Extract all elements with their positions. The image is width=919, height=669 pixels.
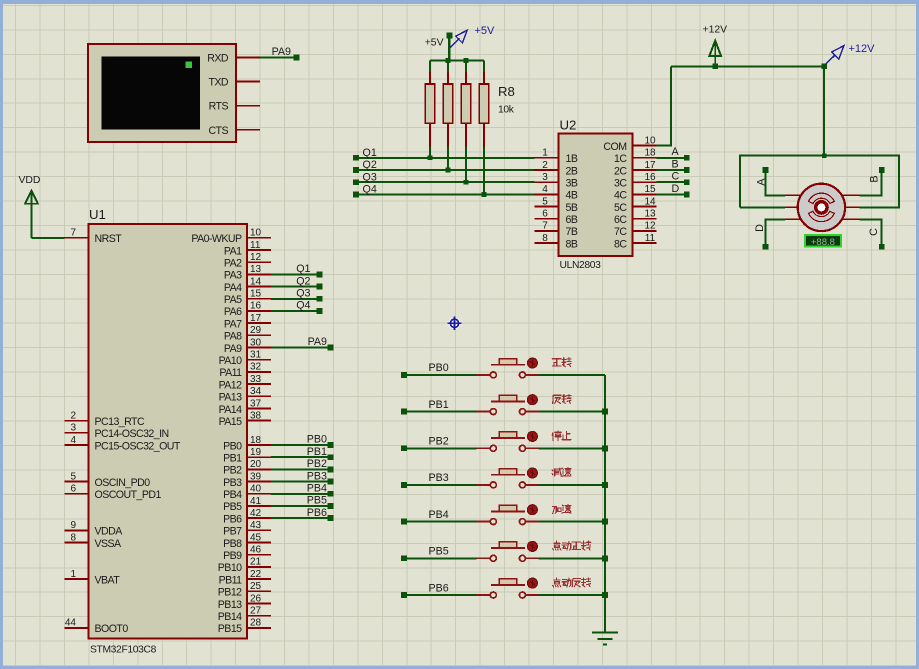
svg-text:PA11: PA11 [219,367,242,379]
svg-text:PC14-OSC32_IN: PC14-OSC32_IN [95,428,169,440]
svg-text:45: 45 [250,532,262,543]
wire net PA9 from U1 [271,345,333,351]
button 6 indicator dot [528,542,538,552]
wire button 3 to ground bus [538,447,605,449]
svg-text:4: 4 [542,184,548,195]
button 1 indicator dot [528,358,538,368]
terminal pin stubs [236,58,260,130]
svg-text:PA7: PA7 [224,318,242,330]
svg-text:+12V: +12V [703,25,728,36]
svg-text:41: 41 [250,496,262,507]
wire button 7 to ground bus [538,594,605,596]
svg-text:C: C [868,228,880,236]
svg-text:6B: 6B [566,214,578,226]
svg-text:OSCIN_PD0: OSCIN_PD0 [95,477,151,489]
svg-text:Q4: Q4 [296,300,310,312]
svg-text:D: D [754,224,766,232]
svg-text:4B: 4B [566,190,578,202]
svg-text:OSCOUT_PD1: OSCOUT_PD1 [95,489,162,501]
svg-text:14: 14 [250,276,262,287]
svg-text:PB3: PB3 [223,477,242,489]
U1 right pins PB0-PB15 [218,435,271,635]
svg-text:PA3: PA3 [224,270,242,282]
svg-text:22: 22 [250,569,262,580]
svg-text:PB4: PB4 [307,483,327,495]
svg-text:PB0: PB0 [307,434,327,446]
button 7 chinese label [553,578,591,587]
wire net Q1 bus to U2 [353,155,535,161]
wire net PB0 to button 1 [401,372,477,378]
wire +12V rail [671,64,827,156]
svg-text:18: 18 [644,148,656,159]
svg-text:PB5: PB5 [223,501,242,513]
push button SW2 [477,395,539,414]
push button SW5 [477,505,539,524]
wire +5V rail (resistor tops) [430,58,484,63]
svg-text:5C: 5C [614,202,627,214]
svg-text:PB2: PB2 [307,458,327,470]
svg-text:STM32F103C8: STM32F103C8 [90,645,157,656]
wire net Q4 from U1 PA6 [271,308,322,314]
svg-text:7C: 7C [614,226,627,238]
svg-text:B: B [672,158,679,170]
svg-text:PB0: PB0 [223,440,242,452]
svg-text:3: 3 [70,423,76,434]
svg-text:PB15: PB15 [218,623,242,635]
power +12V terminal [703,25,728,67]
svg-text:PA14: PA14 [219,404,243,416]
svg-text:7B: 7B [566,226,578,238]
svg-text:PB3: PB3 [429,472,449,484]
svg-text:20: 20 [250,459,262,470]
wire button 1 to ground bus [538,374,605,376]
svg-text:3B: 3B [566,178,578,190]
svg-text:PB2: PB2 [223,465,242,477]
wire net Q3 bus to U2 [353,179,535,185]
svg-text:PB7: PB7 [223,526,242,538]
wire net PB2 to button 3 [401,445,477,451]
virtual terminal (top-left) [88,44,236,142]
svg-text:Q2: Q2 [363,159,377,171]
svg-text:40: 40 [250,484,262,495]
button 1 chinese label [552,358,571,367]
wire net PB4 to button 5 [401,519,477,525]
U2 right pins 1C-8C [614,148,657,251]
svg-text:27: 27 [250,606,262,617]
+12V blue label arrow [825,46,844,65]
svg-text:+5V: +5V [475,25,496,37]
origin marker [448,317,462,331]
svg-text:28: 28 [250,618,262,629]
svg-text:7: 7 [70,228,76,239]
svg-text:PA0-WKUP: PA0-WKUP [191,233,242,245]
svg-text:PC15-OSC32_OUT: PC15-OSC32_OUT [95,440,181,452]
button 6 chinese label [553,541,591,550]
svg-text:8C: 8C [614,238,627,250]
svg-text:2: 2 [70,411,76,422]
wire net C from U2 3C [657,179,690,185]
button 4 indicator dot [528,468,538,478]
svg-text:PA2: PA2 [224,258,242,270]
svg-text:31: 31 [250,350,262,361]
svg-text:BOOT0: BOOT0 [95,623,129,635]
svg-text:3C: 3C [614,178,627,190]
+5V blue label arrow [450,30,467,47]
svg-text:PA5: PA5 [224,294,242,306]
wire net A from U2 1C [657,155,690,161]
svg-text:16: 16 [644,172,656,183]
wire net D from U2 4C [657,192,690,198]
svg-text:46: 46 [250,545,262,556]
svg-text:10k: 10k [498,105,515,116]
wire net Q2 bus to U2 [353,167,535,173]
wire button 6 to ground bus [538,557,605,559]
button 3 indicator dot [528,432,538,442]
push button SW4 [477,469,539,488]
button 7 indicator dot [528,578,538,588]
button 2 indicator dot [528,395,538,405]
svg-text:44: 44 [65,618,77,629]
svg-text:PB12: PB12 [218,587,242,599]
button 5 indicator dot [528,505,538,515]
svg-text:6: 6 [70,484,76,495]
svg-text:PB4: PB4 [223,489,242,501]
svg-text:1: 1 [70,569,76,580]
svg-text:PB9: PB9 [223,550,242,562]
svg-text:PC13_RTC: PC13_RTC [95,416,145,428]
wire ground bus vertical [602,375,608,632]
wire net PB6 to button 7 [401,592,477,598]
svg-text:PB14: PB14 [218,611,242,623]
svg-text:PB13: PB13 [218,599,242,611]
svg-text:PB5: PB5 [307,495,327,507]
svg-text:C: C [672,171,680,183]
power VDD [19,175,41,238]
wire net PB1 to button 2 [401,409,477,415]
svg-text:1: 1 [542,148,548,159]
svg-text:42: 42 [250,508,262,519]
svg-text:RTS: RTS [209,101,229,113]
svg-text:Q1: Q1 [296,263,310,275]
svg-text:PB2: PB2 [429,436,449,448]
svg-text:VDD: VDD [19,175,41,186]
svg-text:Q1: Q1 [363,147,377,159]
push button SW6 [477,542,539,561]
button 3 chinese label [552,431,571,440]
svg-text:6C: 6C [614,214,627,226]
U1 right pins PA0-PA15 [191,228,271,428]
resistor network R8 (4 elements) [425,61,488,148]
wire net PB6 from U1 [271,515,333,521]
wire U2 COM to +12V rail [657,66,671,145]
stepper motor M1 [785,184,860,231]
svg-text:19: 19 [250,447,262,458]
svg-text:4: 4 [70,435,76,446]
svg-text:RXD: RXD [207,53,229,65]
svg-text:12: 12 [250,252,262,263]
svg-text:30: 30 [250,337,262,348]
svg-text:1B: 1B [566,153,578,165]
svg-text:PA6: PA6 [224,306,242,318]
svg-text:PB1: PB1 [307,446,327,458]
svg-text:29: 29 [250,325,262,336]
push button SW1 [477,359,539,378]
wire net Q4 bus to U2 [353,192,535,198]
svg-text:5B: 5B [566,202,578,214]
svg-text:VDDA: VDDA [95,526,124,538]
svg-text:PB8: PB8 [223,538,242,550]
svg-text:PB11: PB11 [219,574,243,586]
svg-text:12: 12 [644,221,656,232]
svg-text:5: 5 [542,196,548,207]
svg-text:PB10: PB10 [218,562,242,574]
svg-text:8: 8 [542,233,548,244]
svg-text:PB4: PB4 [429,509,449,521]
wire net PB4 from U1 [271,491,333,497]
wire button 4 to ground bus [538,484,605,486]
wire net PB1 from U1 [271,454,333,460]
svg-text:7: 7 [542,221,548,232]
motor terminal C wire [860,219,885,249]
motor terminal A wire [763,167,785,195]
svg-text:B: B [869,175,881,182]
svg-text:PB3: PB3 [307,470,327,482]
push button SW7 [477,579,539,598]
wire net PB5 from U1 [271,503,333,509]
svg-text:13: 13 [644,209,656,220]
svg-text:17: 17 [250,313,262,324]
svg-text:PA10: PA10 [219,355,243,367]
wire VDD to U1 NRST [32,237,65,239]
svg-text:10: 10 [644,135,656,146]
svg-text:Q3: Q3 [363,171,377,183]
svg-text:15: 15 [250,289,262,300]
svg-text:PA15: PA15 [219,416,243,428]
svg-text:1C: 1C [614,153,627,165]
svg-text:PA13: PA13 [219,392,243,404]
wire button 5 to ground bus [538,521,605,523]
svg-text:38: 38 [250,410,262,421]
svg-text:34: 34 [250,386,262,397]
svg-text:COM: COM [603,141,626,153]
driver U2 body [559,133,633,256]
svg-text:+12V: +12V [849,43,876,55]
svg-text:18: 18 [250,435,262,446]
ground symbol [592,633,618,645]
svg-text:PB6: PB6 [223,513,242,525]
svg-text:PB5: PB5 [429,546,449,558]
svg-text:Q2: Q2 [296,275,310,287]
wire PA9 from terminal RXD [260,55,299,61]
svg-text:25: 25 [250,581,262,592]
wire motor supply loop [740,153,899,207]
motor terminal D wire [763,219,785,249]
svg-text:PB6: PB6 [307,507,327,519]
wire net PB5 to button 6 [401,555,477,561]
svg-text:A: A [672,146,680,158]
wire net PB3 to button 4 [401,482,477,488]
U2 COM pin 10 [603,135,656,153]
button 5 chinese label [553,504,572,513]
wire net PB0 from U1 [271,442,333,448]
svg-text:14: 14 [644,196,656,207]
svg-text:VBAT: VBAT [95,574,121,586]
wire net Q3 from U1 PA5 [271,296,322,302]
push button SW3 [477,432,539,451]
wire net B from U2 2C [657,167,690,173]
power +5V terminal [425,33,453,61]
svg-text:Q4: Q4 [363,184,377,196]
svg-text:5: 5 [70,471,76,482]
svg-text:PA1: PA1 [224,245,242,257]
svg-text:PB6: PB6 [429,582,449,594]
svg-text:Q3: Q3 [296,288,310,300]
wire net PB2 from U1 [271,467,333,473]
wire net PB3 from U1 [271,479,333,485]
button 2 chinese label [553,394,571,403]
svg-text:R8: R8 [498,84,515,99]
svg-text:11: 11 [645,233,656,244]
svg-text:2B: 2B [566,165,578,177]
svg-text:39: 39 [250,471,262,482]
microcontroller U1 body [89,224,247,639]
svg-text:8B: 8B [566,238,578,250]
svg-text:+88.8: +88.8 [811,237,835,248]
motor terminal B wire [860,167,885,195]
wire net Q1 from U1 PA3 [271,272,322,278]
svg-text:VSSA: VSSA [95,538,123,550]
svg-text:2C: 2C [614,165,627,177]
svg-text:3: 3 [542,172,548,183]
svg-text:17: 17 [644,160,656,171]
svg-text:43: 43 [250,520,262,531]
svg-text:PA9: PA9 [272,46,291,58]
svg-text:CTS: CTS [208,125,228,137]
svg-text:PA9: PA9 [224,343,242,355]
svg-text:10: 10 [250,228,262,239]
svg-text:NRST: NRST [95,233,123,245]
svg-text:PB1: PB1 [223,453,242,465]
U2 left pins 1B-8B [535,148,578,251]
svg-text:PA8: PA8 [224,331,242,343]
svg-text:9: 9 [70,520,76,531]
svg-text:21: 21 [250,557,262,568]
svg-text:16: 16 [250,301,262,312]
svg-text:U2: U2 [560,118,577,133]
svg-text:33: 33 [250,374,262,385]
wire net Q2 from U1 PA4 [271,284,322,290]
motor rpm meter display [805,235,841,248]
U1 left pins [65,228,181,636]
svg-text:26: 26 [250,593,262,604]
svg-text:TXD: TXD [208,77,228,89]
svg-text:PB0: PB0 [429,362,449,374]
button 4 chinese label [552,468,571,477]
svg-text:PA9: PA9 [308,336,327,348]
svg-text:PA4: PA4 [224,282,242,294]
svg-text:8: 8 [70,532,76,543]
svg-text:U1: U1 [89,207,106,222]
svg-text:13: 13 [250,264,262,275]
svg-text:+5V: +5V [425,38,444,49]
svg-text:PA12: PA12 [219,379,243,391]
svg-text:D: D [672,183,680,195]
svg-text:37: 37 [250,398,262,409]
svg-text:6: 6 [542,209,548,220]
svg-text:PB1: PB1 [429,399,449,411]
svg-text:4C: 4C [614,190,627,202]
svg-text:A: A [756,178,768,186]
svg-text:2: 2 [542,160,548,171]
svg-text:15: 15 [644,184,656,195]
svg-text:11: 11 [250,240,261,251]
svg-text:32: 32 [250,362,262,373]
wires resistor bottoms to Q nets [428,147,487,197]
svg-text:ULN2803: ULN2803 [560,260,602,271]
wire button 2 to ground bus [538,411,605,413]
